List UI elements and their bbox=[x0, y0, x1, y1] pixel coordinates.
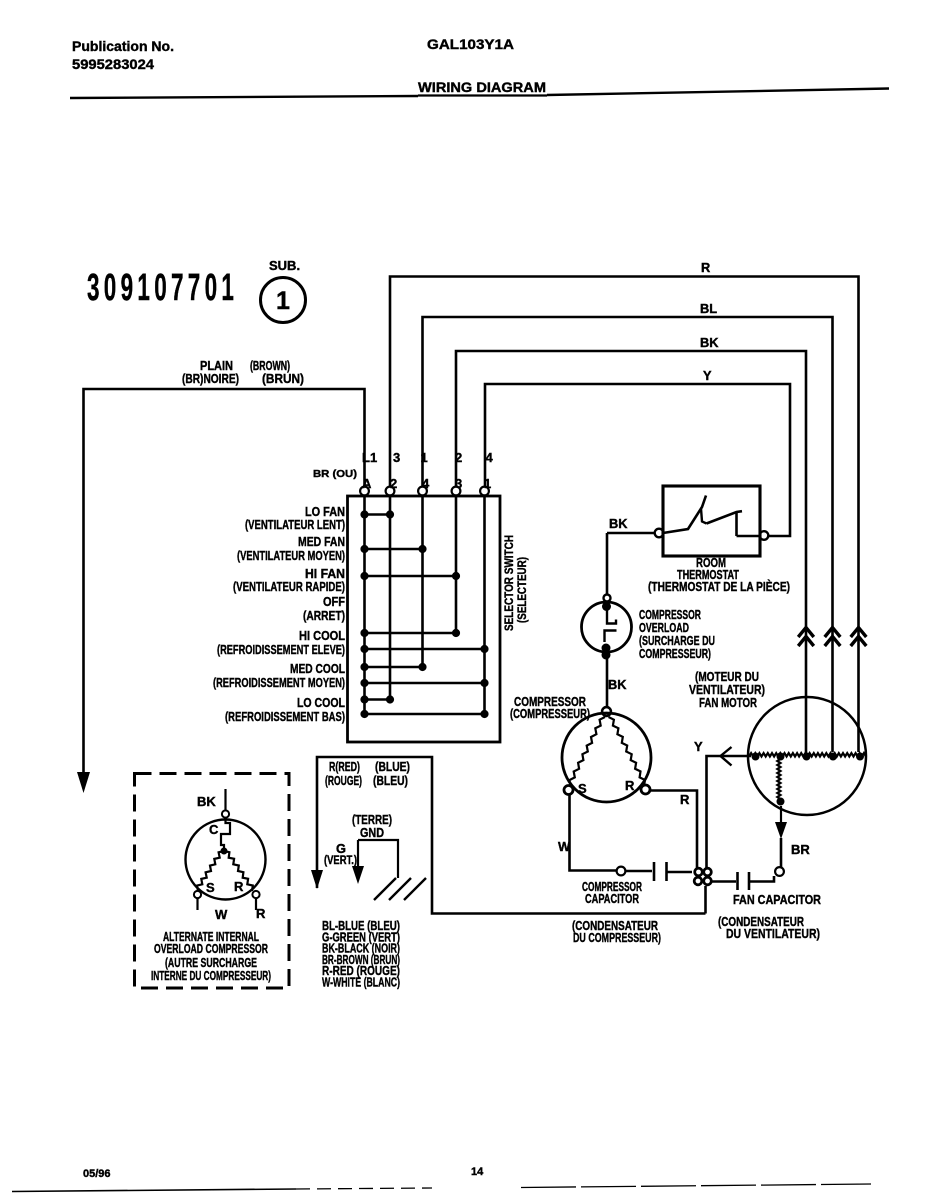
svg-text:MED FAN: MED FAN bbox=[298, 534, 345, 549]
svg-text:BK: BK bbox=[700, 335, 719, 350]
svg-text:R: R bbox=[701, 260, 710, 275]
svg-text:Y: Y bbox=[694, 739, 703, 754]
svg-text:(REFROIDISSEMENT BAS): (REFROIDISSEMENT BAS) bbox=[225, 709, 345, 724]
svg-text:DU VENTILATEUR): DU VENTILATEUR) bbox=[726, 926, 820, 941]
svg-text:DU COMPRESSEUR): DU COMPRESSEUR) bbox=[573, 930, 661, 945]
svg-text:(VENTILATEUR MOYEN): (VENTILATEUR MOYEN) bbox=[237, 548, 345, 563]
svg-text:C: C bbox=[209, 822, 219, 837]
svg-text:MED COOL: MED COOL bbox=[290, 661, 345, 676]
svg-text:COMPRESSEUR): COMPRESSEUR) bbox=[639, 646, 711, 661]
svg-text:S: S bbox=[578, 781, 587, 796]
svg-text:INTERNE DU COMPRESSEUR): INTERNE DU COMPRESSEUR) bbox=[151, 968, 271, 983]
svg-text:BK: BK bbox=[609, 516, 628, 531]
svg-text:OFF: OFF bbox=[323, 594, 345, 609]
svg-text:0: 0 bbox=[205, 267, 218, 309]
svg-text:9: 9 bbox=[121, 267, 133, 309]
svg-text:(VENTILATEUR LENT): (VENTILATEUR LENT) bbox=[245, 517, 345, 532]
svg-text:3: 3 bbox=[87, 267, 100, 309]
svg-text:HI COOL: HI COOL bbox=[299, 628, 345, 643]
svg-text:GND: GND bbox=[360, 826, 384, 840]
svg-text:W: W bbox=[215, 907, 228, 922]
svg-text:Publication No.: Publication No. bbox=[72, 39, 174, 54]
svg-text:SUB.: SUB. bbox=[269, 258, 300, 273]
svg-text:GAL103Y1A: GAL103Y1A bbox=[427, 37, 514, 52]
svg-text:(REFROIDISSEMENT ELEVE): (REFROIDISSEMENT ELEVE) bbox=[217, 642, 345, 657]
svg-text:14: 14 bbox=[471, 1166, 484, 1178]
svg-text:SELECTOR SWITCH: SELECTOR SWITCH bbox=[502, 535, 516, 631]
svg-text:BK: BK bbox=[608, 677, 627, 692]
svg-text:(VERT.): (VERT.) bbox=[324, 853, 357, 867]
svg-text:(BROWN): (BROWN) bbox=[250, 359, 290, 373]
svg-text:1: 1 bbox=[421, 450, 428, 465]
svg-text:W: W bbox=[558, 839, 571, 854]
svg-text:W-WHITE (BLANC): W-WHITE (BLANC) bbox=[322, 975, 400, 990]
svg-text:7: 7 bbox=[171, 267, 184, 309]
svg-text:PLAIN: PLAIN bbox=[200, 359, 233, 373]
svg-text:BL: BL bbox=[700, 301, 717, 316]
svg-text:5995283024: 5995283024 bbox=[72, 57, 155, 72]
svg-text:R: R bbox=[680, 792, 690, 807]
svg-text:CAPACITOR: CAPACITOR bbox=[585, 891, 639, 906]
svg-text:1: 1 bbox=[137, 267, 150, 309]
svg-text:(SELECTEUR): (SELECTEUR) bbox=[515, 557, 529, 623]
svg-text:WIRING DIAGRAM: WIRING DIAGRAM bbox=[418, 80, 546, 95]
svg-text:(ARRET): (ARRET) bbox=[303, 608, 345, 623]
svg-text:BR: BR bbox=[791, 842, 810, 857]
svg-text:2: 2 bbox=[455, 450, 462, 465]
svg-text:OVERLOAD COMPRESSOR: OVERLOAD COMPRESSOR bbox=[154, 941, 268, 956]
svg-text:BK: BK bbox=[197, 794, 216, 809]
svg-text:(VENTILATEUR RAPIDE): (VENTILATEUR RAPIDE) bbox=[233, 579, 345, 594]
svg-text:(BR)NOIRE): (BR)NOIRE) bbox=[182, 372, 239, 386]
svg-text:BR (OU): BR (OU) bbox=[313, 468, 357, 480]
svg-text:(BRUN): (BRUN) bbox=[262, 372, 304, 386]
svg-text:(TERRE): (TERRE) bbox=[352, 813, 392, 827]
svg-text:7: 7 bbox=[188, 267, 201, 309]
svg-text:05/96: 05/96 bbox=[83, 1168, 111, 1180]
svg-text:L1: L1 bbox=[362, 450, 377, 465]
svg-text:0: 0 bbox=[154, 267, 167, 309]
svg-text:R: R bbox=[256, 906, 266, 921]
svg-text:R: R bbox=[625, 778, 635, 793]
svg-text:(THERMOSTAT DE LA PIÈCE): (THERMOSTAT DE LA PIÈCE) bbox=[648, 579, 790, 594]
svg-text:4: 4 bbox=[486, 450, 494, 465]
svg-text:FAN MOTOR: FAN MOTOR bbox=[699, 695, 757, 710]
svg-text:FAN CAPACITOR: FAN CAPACITOR bbox=[733, 892, 821, 907]
svg-text:R(RED): R(RED) bbox=[329, 760, 360, 774]
svg-text:S: S bbox=[206, 880, 215, 895]
svg-text:(COMPRESSEUR): (COMPRESSEUR) bbox=[510, 706, 590, 721]
svg-text:(REFROIDISSEMENT MOYEN): (REFROIDISSEMENT MOYEN) bbox=[213, 675, 345, 690]
svg-text:3: 3 bbox=[393, 450, 400, 465]
svg-text:(BLUE): (BLUE) bbox=[375, 760, 410, 774]
svg-text:1: 1 bbox=[276, 287, 290, 315]
svg-text:1: 1 bbox=[221, 267, 234, 309]
svg-text:0: 0 bbox=[104, 267, 117, 309]
svg-text:LO COOL: LO COOL bbox=[297, 695, 345, 710]
svg-text:Y: Y bbox=[703, 368, 712, 383]
svg-text:R: R bbox=[234, 879, 244, 894]
svg-text:(BLEU): (BLEU) bbox=[373, 774, 408, 788]
svg-text:(ROUGE): (ROUGE) bbox=[325, 774, 362, 788]
